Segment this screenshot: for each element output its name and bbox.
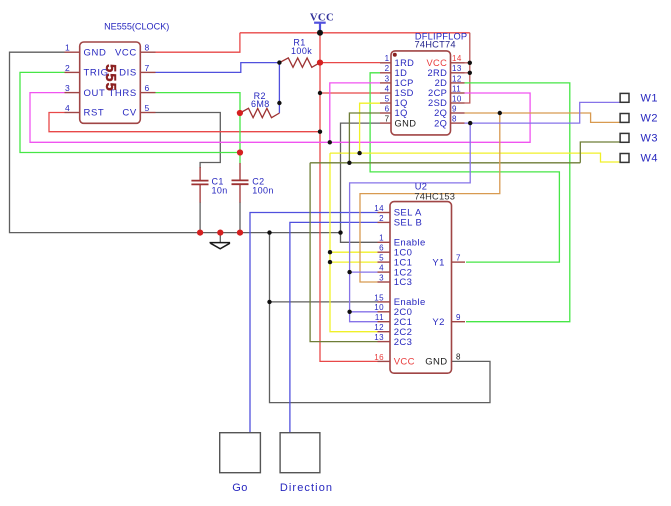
svg-text:RST: RST	[84, 108, 105, 119]
svg-text:6M8: 6M8	[251, 99, 270, 109]
svg-text:W4: W4	[641, 153, 659, 165]
svg-text:1Q: 1Q	[395, 108, 408, 118]
svg-text:10: 10	[452, 94, 462, 103]
svg-text:8: 8	[456, 353, 461, 362]
svg-text:2D: 2D	[435, 78, 448, 88]
svg-text:10: 10	[374, 303, 384, 312]
svg-text:3: 3	[379, 273, 384, 282]
svg-text:NE555(CLOCK): NE555(CLOCK)	[104, 21, 169, 31]
svg-text:14: 14	[452, 54, 462, 63]
svg-text:2: 2	[379, 214, 384, 223]
svg-text:1CP: 1CP	[395, 78, 414, 88]
svg-text:74HC153: 74HC153	[414, 191, 455, 201]
svg-text:11: 11	[452, 84, 461, 93]
svg-text:7: 7	[385, 115, 390, 124]
svg-text:Y1: Y1	[432, 257, 444, 268]
svg-text:CV: CV	[122, 108, 136, 119]
svg-text:3: 3	[385, 74, 390, 83]
svg-text:2: 2	[385, 64, 390, 73]
svg-text:7: 7	[456, 253, 461, 262]
svg-text:14: 14	[374, 204, 384, 213]
svg-text:1RD: 1RD	[395, 58, 415, 68]
svg-text:GND: GND	[84, 47, 107, 58]
svg-text:DIS: DIS	[119, 68, 137, 79]
svg-text:1: 1	[379, 234, 384, 243]
svg-text:VCC: VCC	[310, 11, 334, 23]
svg-text:12: 12	[452, 74, 462, 83]
svg-text:10n: 10n	[212, 185, 228, 195]
svg-text:Direction: Direction	[280, 482, 333, 494]
svg-text:8: 8	[452, 115, 457, 124]
svg-text:VCC: VCC	[394, 357, 415, 368]
svg-text:1: 1	[65, 43, 70, 53]
svg-text:4: 4	[65, 103, 70, 113]
svg-text:2C3: 2C3	[394, 337, 413, 348]
svg-text:VCC: VCC	[115, 47, 137, 58]
svg-text:2Q: 2Q	[434, 118, 447, 128]
svg-text:5: 5	[379, 254, 384, 263]
svg-text:555: 555	[102, 64, 118, 92]
svg-text:4: 4	[379, 264, 384, 273]
svg-text:6: 6	[379, 244, 384, 253]
svg-text:100n: 100n	[252, 185, 274, 195]
svg-text:2Q: 2Q	[434, 108, 447, 118]
svg-text:13: 13	[374, 333, 384, 342]
svg-text:5: 5	[145, 103, 150, 113]
svg-text:2CP: 2CP	[428, 88, 447, 98]
svg-text:2SD: 2SD	[428, 98, 447, 108]
svg-text:3: 3	[65, 83, 70, 93]
svg-text:W3: W3	[641, 133, 659, 145]
svg-text:15: 15	[374, 293, 384, 302]
svg-text:7: 7	[145, 63, 150, 73]
svg-text:1D: 1D	[395, 68, 408, 78]
svg-text:12: 12	[374, 323, 384, 332]
svg-text:9: 9	[452, 105, 457, 114]
svg-text:6: 6	[385, 105, 390, 114]
svg-text:1SD: 1SD	[395, 88, 414, 98]
svg-text:8: 8	[145, 43, 150, 53]
svg-text:Y2: Y2	[432, 317, 444, 328]
svg-text:16: 16	[374, 353, 384, 362]
svg-text:74HCT74: 74HCT74	[415, 40, 456, 50]
svg-text:9: 9	[456, 313, 461, 322]
svg-text:W1: W1	[641, 93, 659, 105]
svg-text:100k: 100k	[291, 46, 312, 56]
svg-text:6: 6	[145, 83, 150, 93]
svg-text:4: 4	[385, 84, 390, 93]
svg-text:Go: Go	[232, 482, 247, 494]
svg-text:13: 13	[452, 64, 462, 73]
svg-text:1C3: 1C3	[394, 277, 413, 288]
svg-text:2: 2	[65, 63, 70, 73]
svg-text:SEL B: SEL B	[394, 218, 423, 229]
svg-text:5: 5	[385, 94, 390, 103]
svg-text:VCC: VCC	[426, 58, 447, 68]
svg-text:11: 11	[375, 313, 384, 322]
svg-text:2RD: 2RD	[427, 68, 447, 78]
svg-text:U2: U2	[415, 182, 427, 192]
svg-text:GND: GND	[425, 357, 447, 368]
svg-text:W2: W2	[641, 113, 659, 125]
svg-text:GND: GND	[395, 118, 417, 128]
svg-text:1: 1	[385, 54, 390, 63]
svg-text:1Q: 1Q	[395, 98, 408, 108]
